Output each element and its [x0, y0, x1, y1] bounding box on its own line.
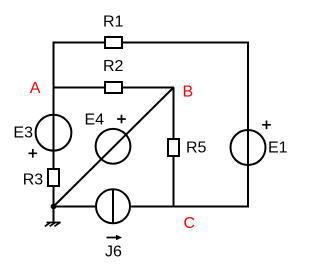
wire diagonal node-B: [54, 87, 175, 207]
svg-text:R3: R3: [23, 172, 44, 189]
wire A-B horizontal: [53, 87, 174, 89]
resistor R3: [48, 169, 59, 186]
svg-text:R5: R5: [186, 140, 207, 157]
source E3: [36, 115, 72, 151]
arrow J6: [107, 237, 118, 239]
source E4: [96, 129, 131, 164]
svg-text:R2: R2: [103, 58, 124, 75]
svg-text:A: A: [30, 80, 41, 97]
svg-text:E3: E3: [13, 125, 33, 142]
resistor R5: [168, 139, 179, 156]
resistor R1: [105, 37, 122, 48]
resistor R2: [105, 82, 122, 93]
current source J6: [96, 189, 130, 223]
source E1: [231, 130, 266, 165]
svg-text:C: C: [184, 215, 196, 232]
wire outer loop (top, right, bottom, left): [54, 43, 249, 207]
svg-text:R1: R1: [103, 14, 124, 31]
svg-text:J6: J6: [105, 244, 122, 261]
plus E3: [29, 149, 38, 158]
plus E4: [117, 115, 126, 124]
ground: [45, 207, 61, 226]
svg-text:E1: E1: [268, 140, 288, 157]
svg-text:B: B: [183, 84, 194, 101]
ground node dot: [51, 204, 57, 210]
wire B-C vertical: [173, 88, 175, 207]
plus E1: [262, 121, 271, 130]
svg-text:E4: E4: [85, 112, 105, 129]
